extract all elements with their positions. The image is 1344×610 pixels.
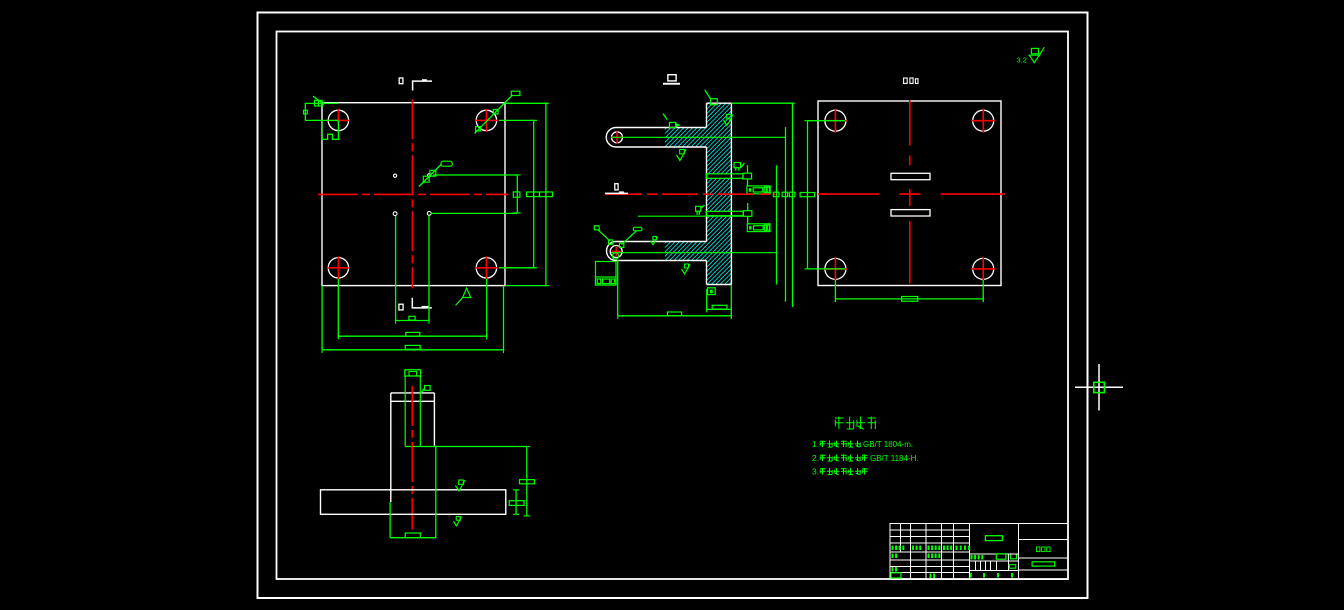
hole K1 top-left (823, 109, 847, 133)
extension line plate left corner down (321, 286, 323, 350)
small pin hole c (393, 212, 397, 216)
dimension text box P2 height (800, 193, 815, 197)
lower rod end circle (610, 246, 622, 258)
lower rod centerline (611, 252, 777, 254)
dimension line plate height (543, 103, 550, 285)
view label P2 (904, 78, 918, 83)
extension line plate right corner down (503, 286, 505, 350)
hatched upper arm section (665, 128, 707, 148)
extension line plate top (505, 102, 548, 104)
dimension text box pair on height dims (527, 192, 553, 197)
plate P1 horizontal centerline (318, 193, 508, 195)
profile bracket under hole H1 (322, 121, 339, 140)
roughness symbol on base plate (456, 480, 466, 491)
ejector tolerance frame (596, 277, 617, 285)
technical requirements title (835, 417, 876, 430)
hole K4 bottom-right (971, 257, 995, 281)
hole H3 bottom-left (327, 256, 350, 279)
dimension tick boxes on centerline (773, 192, 795, 197)
title block bottom row marks (970, 573, 1013, 578)
dimension line center holes vertical (514, 175, 521, 213)
hole H4 bottom-right (475, 256, 498, 279)
hole K2 top-right (971, 109, 995, 133)
extension line hole-d row (431, 212, 518, 214)
small pin hole a (394, 174, 397, 177)
leader square on lower rod a (609, 240, 613, 244)
leader balloon lower-left b (622, 227, 643, 244)
dimension line holes vertical (531, 120, 538, 267)
dimension line d1 vertical (776, 165, 778, 284)
plate P1 outline (plan view) (322, 103, 505, 286)
crosshair cursor (1075, 364, 1123, 411)
roughness symbol under base plate (454, 517, 462, 526)
title block part-number box (985, 536, 1002, 541)
section label square view2 (663, 75, 680, 85)
tech requirement line 2 (812, 453, 919, 463)
lower rod small green circle (612, 253, 618, 259)
plate P2 vertical centerline (909, 100, 911, 284)
extension line K1 left (808, 120, 846, 122)
extension line K3 left (808, 268, 846, 270)
dimension text box hole spacing (406, 332, 420, 336)
base plate bar outline (321, 490, 506, 515)
leader square on lower rod b (620, 243, 624, 247)
dimension line P2 height (804, 121, 810, 269)
dimension text box center holes (513, 192, 520, 197)
extension line hole H2 row (499, 119, 535, 121)
extension line plate bottom (505, 285, 548, 287)
column extension left down (706, 289, 708, 311)
view4 centerline (411, 386, 413, 530)
upper rod centerline (612, 136, 786, 138)
lower green housing (390, 446, 436, 538)
leader balloon lower-left a (594, 226, 610, 241)
hole K3 bottom-left (823, 257, 847, 281)
title block grid (890, 524, 1068, 580)
roughness symbol in column hatch (724, 115, 734, 126)
extension line K4 down (982, 280, 984, 302)
section arrow flag A (456, 288, 471, 305)
dimension text box view2 overall (667, 312, 681, 316)
dimension text box base thickness (509, 501, 524, 506)
datum flag on upper arm (663, 114, 679, 128)
guide bush outline (391, 393, 435, 502)
roughness symbol below lower arm (682, 264, 691, 274)
top dimension line of column (731, 103, 794, 108)
tech requirement line 3 (812, 467, 868, 477)
extension line rod down (617, 260, 619, 316)
hole H1 top-left (327, 109, 350, 132)
title block row7 text (892, 567, 898, 572)
pin leader line left (638, 215, 743, 217)
section label square bottom (399, 304, 403, 310)
dimension line d3 vertical (792, 103, 794, 307)
upper rod end circle (611, 131, 623, 143)
ejector housing outline (596, 262, 617, 286)
title block row4 text (892, 546, 971, 551)
slot S1 upper (891, 173, 930, 179)
dimension text box P2 width (902, 297, 918, 302)
leader to upper tolerance frame (747, 165, 749, 186)
dimension text box plate width (405, 345, 420, 349)
extension line hole H4 down (486, 279, 488, 338)
title block designer text (971, 554, 1017, 560)
title block row8 mark (930, 574, 936, 579)
perpendicularity symbol upper pin (734, 163, 745, 171)
dimension line column width (707, 306, 732, 312)
title block row5 text (892, 554, 941, 559)
dimension line d2 vertical (785, 127, 787, 302)
lower guide rod outline (607, 242, 707, 261)
screw bottom line to dimension (405, 446, 527, 448)
sheet inner border frame (277, 32, 1069, 580)
perpendicularity symbol lower pin (696, 205, 705, 215)
extension line small hole c down (395, 216, 397, 321)
core column outline (707, 103, 732, 284)
section cut mark top (413, 79, 432, 90)
extension line hole-b row (433, 174, 517, 176)
tolerance frame upper pin (747, 186, 770, 194)
dimension line hole spacing (338, 333, 486, 339)
title block material text (1037, 547, 1051, 552)
svg-text:3.: 3. (812, 467, 819, 477)
hatched lower arm section (665, 242, 707, 261)
extension line small hole d down (428, 216, 430, 321)
slot S2 lower (891, 210, 930, 216)
svg-text:1.: 1. (812, 439, 819, 449)
leader with balloon to center holes (419, 161, 452, 186)
dimension line P2 width (835, 296, 983, 302)
middle view centerline (606, 193, 775, 195)
screw head (405, 370, 421, 376)
extension line hole H4 row (499, 267, 535, 269)
roughness symbol below upper arm (677, 150, 687, 161)
hatched core column section (707, 103, 732, 284)
dimension line screw depth (524, 447, 531, 516)
svg-text:3.2: 3.2 (1017, 56, 1027, 65)
section cut mark bottom (412, 298, 432, 308)
dimension line plate width (322, 347, 503, 354)
lower ejector pin (706, 211, 752, 217)
dimension text box small holes (409, 316, 415, 320)
upper guide rod outline (606, 128, 706, 148)
leader box column top-left (705, 90, 717, 105)
leader to lower tolerance frame (747, 203, 749, 224)
title block small box rowB (1009, 565, 1015, 569)
dimension text box screw depth (520, 480, 535, 484)
svg-text:GB/T 1804-m.: GB/T 1804-m. (863, 440, 913, 449)
extension line hole H3 down (337, 279, 339, 338)
small pin hole d (427, 212, 431, 216)
gate mark box below column (708, 288, 716, 295)
dimension line base thickness (513, 490, 520, 515)
extension line K3 down (834, 280, 836, 302)
sheet outer border frame (258, 13, 1088, 599)
roughness symbol near lower rod (651, 237, 658, 245)
hole H2 top-right (475, 109, 498, 132)
plate P2 horizontal centerline (818, 193, 1005, 195)
title block scale box (891, 573, 901, 578)
dimension line small holes (396, 317, 429, 324)
section label left of centerline (605, 184, 628, 195)
column extension right down (730, 285, 732, 319)
tolerance frame lower pin (747, 224, 770, 232)
dimension line view2 overall (618, 313, 732, 319)
global roughness note (1017, 47, 1045, 64)
plate P2 outline (818, 101, 1001, 286)
upper ejector pin (706, 173, 751, 179)
tech requirement line 1 (812, 439, 913, 449)
dimension text box column width (712, 305, 727, 309)
small pin hole b (428, 174, 431, 177)
flag symbol near screw head (420, 386, 430, 394)
plate P1 vertical centerline (411, 99, 413, 288)
datum leader top-left corner (304, 96, 339, 120)
title block company box (1032, 562, 1055, 566)
screw body (405, 376, 420, 447)
leader through hole H2 with balloon (475, 91, 520, 133)
svg-text:2.: 2. (812, 453, 819, 463)
section label square top (399, 78, 403, 84)
svg-text:GB/T 1184-H.: GB/T 1184-H. (870, 454, 919, 463)
